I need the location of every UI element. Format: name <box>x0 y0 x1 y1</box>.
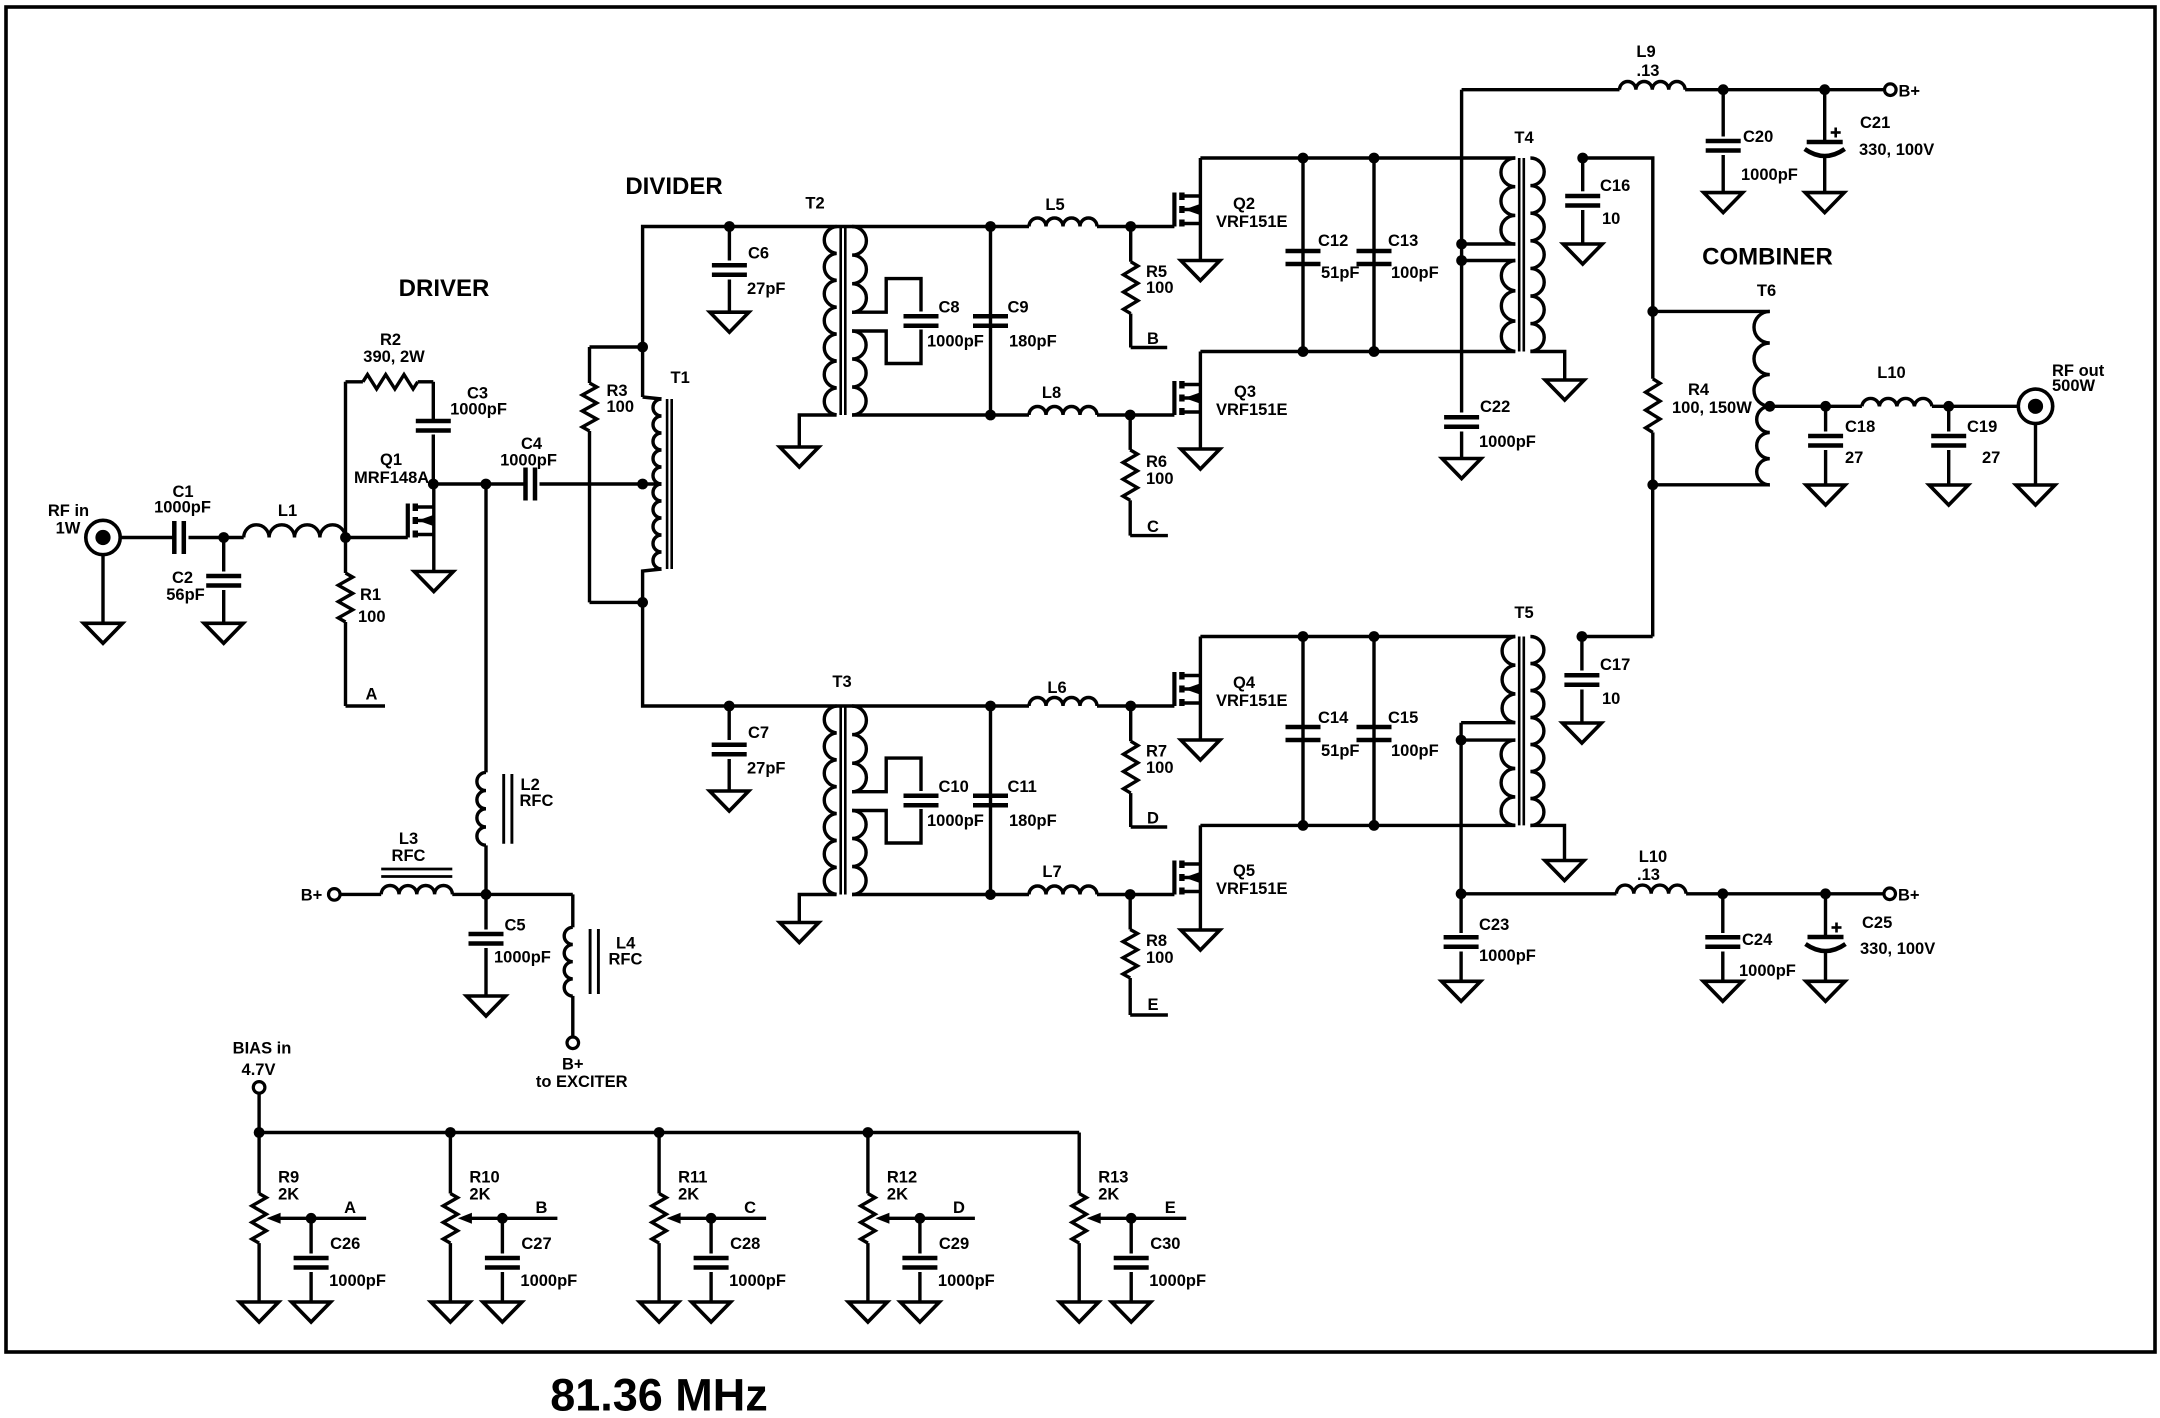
resistor R1 <box>338 538 385 707</box>
resistor R4 <box>1646 311 1753 484</box>
capacitor C4 <box>500 435 557 501</box>
ground <box>1181 261 1220 281</box>
svg-text:1000pF: 1000pF <box>329 1272 386 1290</box>
connector B+ (top) <box>1885 84 1897 96</box>
inductor L10 <box>1616 848 1686 894</box>
svg-text:VRF151E: VRF151E <box>1216 213 1288 231</box>
svg-text:Q5: Q5 <box>1233 862 1255 880</box>
capacitor C24 <box>1705 894 1796 982</box>
net label E <box>1131 1199 1186 1218</box>
svg-text:C18: C18 <box>1845 418 1875 436</box>
ground <box>1181 449 1220 469</box>
capacitor C2 <box>166 538 241 624</box>
node R8 junction <box>1125 889 1136 900</box>
svg-text:C16: C16 <box>1600 177 1630 195</box>
wire T1 bottom to lower rail <box>643 602 730 706</box>
ground <box>1545 861 1584 881</box>
wire L9 to B+ <box>1685 88 1884 91</box>
ground <box>900 1302 939 1322</box>
svg-text:100: 100 <box>1146 279 1174 297</box>
svg-text:DIVIDER: DIVIDER <box>625 173 722 200</box>
svg-text:T5: T5 <box>1514 604 1533 622</box>
capacitor C13 <box>1357 158 1439 352</box>
capacitor C30 <box>1114 1218 1206 1302</box>
svg-text:330, 100V: 330, 100V <box>1859 141 1934 159</box>
wire T3 bottom row <box>852 893 1029 896</box>
svg-text:1W: 1W <box>56 520 81 538</box>
svg-text:27pF: 27pF <box>747 760 786 778</box>
capacitor C20 <box>1706 90 1798 193</box>
svg-text:L6: L6 <box>1047 679 1066 697</box>
net label A <box>311 1199 366 1218</box>
transistor Q4 VRF151E <box>1174 637 1287 741</box>
connector RF in <box>86 520 120 554</box>
net label B <box>502 1199 557 1218</box>
svg-text:Q1: Q1 <box>380 451 402 469</box>
svg-text:27: 27 <box>1982 449 2000 467</box>
ground <box>1442 459 1481 479</box>
svg-text:1000pF: 1000pF <box>1741 166 1798 184</box>
net label D <box>1131 810 1168 828</box>
wire RF in connector to ground <box>101 554 104 623</box>
svg-text:RF in: RF in <box>48 502 89 520</box>
svg-text:B+: B+ <box>562 1056 584 1074</box>
wire L10 row left <box>1461 892 1616 895</box>
wire T3 lower tap to C10 <box>852 809 921 843</box>
svg-text:R10: R10 <box>469 1169 499 1187</box>
svg-text:R7: R7 <box>1146 743 1167 761</box>
ground <box>483 1302 522 1322</box>
node R10 wiper <box>497 1213 508 1224</box>
svg-text:1000pF: 1000pF <box>927 812 984 830</box>
ground <box>240 1302 279 1322</box>
svg-text:D: D <box>953 1199 965 1217</box>
svg-text:T1: T1 <box>671 369 690 387</box>
svg-text:C12: C12 <box>1318 232 1348 250</box>
capacitor C15 <box>1357 637 1439 826</box>
node C24 junction <box>1717 888 1728 899</box>
svg-text:COMBINER: COMBINER <box>1702 244 1833 271</box>
potentiometer R9 2K <box>252 1133 311 1303</box>
svg-text:C29: C29 <box>939 1235 969 1253</box>
svg-text:C10: C10 <box>939 778 969 796</box>
potentiometer R13 2K <box>1072 1133 1131 1303</box>
svg-text:C7: C7 <box>748 724 769 742</box>
wire Q5 drain rail <box>1200 824 1515 827</box>
svg-text:A: A <box>366 686 378 704</box>
wire T4 taps to L9 and C22 <box>1460 90 1463 413</box>
svg-text:100: 100 <box>1146 470 1174 488</box>
ground <box>414 572 453 592</box>
wire C4 to T1 center tap <box>540 482 643 485</box>
node R9 wiper <box>306 1213 317 1224</box>
inductor L4 RFC <box>564 927 642 996</box>
node bias bus junction <box>863 1127 874 1138</box>
resistor R6 <box>1123 415 1174 536</box>
svg-text:1000pF: 1000pF <box>1479 433 1536 451</box>
svg-text:B: B <box>535 1199 547 1217</box>
inductor L8 <box>1029 384 1097 415</box>
svg-text:RFC: RFC <box>609 951 643 969</box>
svg-text:C8: C8 <box>939 299 960 317</box>
node Q1 drain <box>428 479 439 490</box>
wire L2 to B+ node <box>484 845 487 894</box>
wire node to L4 <box>486 894 573 927</box>
wire output row <box>1770 405 2019 408</box>
svg-text:B+: B+ <box>301 887 323 905</box>
svg-text:C19: C19 <box>1967 418 1997 436</box>
svg-text:.13: .13 <box>1637 62 1660 80</box>
node C20 junction <box>1718 84 1729 95</box>
inductor L6 <box>1029 679 1097 706</box>
node C13 bottom <box>1369 346 1380 357</box>
node bias bus junction <box>254 1127 265 1138</box>
svg-text:1000pF: 1000pF <box>154 499 211 517</box>
svg-text:RFC: RFC <box>392 847 426 865</box>
ground <box>1703 981 1742 1001</box>
svg-text:R4: R4 <box>1688 381 1710 399</box>
svg-text:B+: B+ <box>1898 887 1920 905</box>
capacitor C21 electrolytic <box>1805 90 1935 193</box>
svg-text:100: 100 <box>1146 949 1174 967</box>
svg-text:81.36 MHz: 81.36 MHz <box>550 1370 768 1418</box>
svg-text:L8: L8 <box>1042 384 1061 402</box>
svg-text:C27: C27 <box>521 1235 551 1253</box>
net label B <box>1131 330 1168 348</box>
wire C3 to Q1 drain node <box>432 435 435 485</box>
svg-text:L10: L10 <box>1639 848 1667 866</box>
node C14 bottom <box>1298 820 1309 831</box>
svg-text:C26: C26 <box>330 1235 360 1253</box>
capacitor C23 <box>1444 894 1536 982</box>
svg-text:180pF: 180pF <box>1009 812 1057 830</box>
svg-text:MRF148A: MRF148A <box>354 469 429 487</box>
ground <box>1060 1302 1099 1322</box>
capacitor C16 <box>1565 158 1630 244</box>
node bias bus junction <box>654 1127 665 1138</box>
svg-text:180pF: 180pF <box>1009 333 1057 351</box>
connector BIAS in <box>253 1082 265 1094</box>
transistor Q3 VRF151E <box>1174 352 1287 450</box>
svg-text:VRF151E: VRF151E <box>1216 692 1288 710</box>
ground <box>1806 485 1845 505</box>
svg-text:2K: 2K <box>1098 1186 1119 1204</box>
wire T5 taps to L10 row <box>1459 723 1462 894</box>
potentiometer R11 2K <box>652 1133 711 1303</box>
wire R2 to C3 <box>432 382 435 421</box>
transistor Q1 MRF148A <box>354 451 434 572</box>
ground <box>848 1302 887 1322</box>
svg-text:C: C <box>1147 518 1159 536</box>
svg-text:L7: L7 <box>1042 863 1061 881</box>
node C11 top <box>985 701 996 712</box>
node L2 tap <box>481 479 492 490</box>
wire T2 bottom row <box>852 413 1029 416</box>
wire L3 to node <box>452 893 486 896</box>
node C7 junction <box>724 701 735 712</box>
wire L9 row left <box>1462 88 1620 91</box>
ground <box>2016 485 2055 505</box>
node C2 junction <box>218 532 229 543</box>
capacitor C5 <box>469 894 551 996</box>
label RF in 1W <box>48 502 89 538</box>
svg-text:R1: R1 <box>360 586 381 604</box>
wire B+ to L3 <box>340 893 381 896</box>
svg-text:C4: C4 <box>521 435 543 453</box>
label B+ <box>1898 887 1920 905</box>
transistor Q5 VRF151E <box>1174 825 1287 928</box>
svg-text:C11: C11 <box>1008 778 1037 796</box>
net label A <box>346 686 386 707</box>
svg-text:51pF: 51pF <box>1321 742 1360 760</box>
svg-text:2K: 2K <box>469 1186 490 1204</box>
ground <box>1806 981 1845 1001</box>
ground <box>1704 193 1743 213</box>
capacitor C27 <box>485 1218 577 1302</box>
wire T1 top to divider rail <box>643 227 730 348</box>
svg-text:2K: 2K <box>887 1186 908 1204</box>
wire divider rail to T2/L5 <box>729 225 1029 228</box>
svg-text:C2: C2 <box>172 569 193 587</box>
svg-text:A: A <box>344 1199 356 1217</box>
net label C <box>711 1199 766 1218</box>
svg-text:L3: L3 <box>399 830 418 848</box>
svg-text:56pF: 56pF <box>166 586 205 604</box>
node C15 bottom <box>1369 820 1380 831</box>
svg-text:27: 27 <box>1845 449 1863 467</box>
node R4 top <box>1647 306 1658 317</box>
wire L1 to Q1 gate <box>346 536 408 539</box>
svg-text:T4: T4 <box>1514 129 1534 147</box>
svg-text:R9: R9 <box>278 1169 299 1187</box>
net label C <box>1130 518 1168 536</box>
resistor R3 <box>582 347 642 602</box>
ground <box>780 447 819 467</box>
svg-text:C14: C14 <box>1318 709 1349 727</box>
node T1 center tap <box>637 479 648 490</box>
svg-text:330, 100V: 330, 100V <box>1860 940 1935 958</box>
capacitor C12 <box>1286 158 1360 352</box>
svg-text:T2: T2 <box>805 195 824 213</box>
node bias bus junction <box>445 1127 456 1138</box>
net label E <box>1130 996 1168 1015</box>
svg-text:2K: 2K <box>278 1186 299 1204</box>
capacitor C1 <box>154 483 211 554</box>
svg-text:2K: 2K <box>678 1186 699 1204</box>
svg-text:1000pF: 1000pF <box>1149 1272 1206 1290</box>
label B+ to EXCITER <box>536 1056 628 1092</box>
label B+ <box>1899 83 1921 101</box>
capacitor C22 <box>1444 398 1536 459</box>
capacitor C28 <box>694 1218 786 1302</box>
svg-text:C24: C24 <box>1742 931 1773 949</box>
svg-text:C15: C15 <box>1388 709 1418 727</box>
ground <box>1442 981 1481 1001</box>
svg-text:100: 100 <box>607 398 635 416</box>
ground <box>1181 740 1220 760</box>
label COMBINER <box>1702 244 1833 271</box>
ground <box>692 1302 731 1322</box>
ground <box>292 1302 331 1322</box>
connector B+ (bottom) <box>1884 888 1896 900</box>
svg-text:B+: B+ <box>1899 83 1921 101</box>
svg-text:R11: R11 <box>678 1169 707 1187</box>
transformer T6 <box>1653 282 1776 485</box>
connector RF out <box>2018 389 2052 423</box>
svg-text:Q2: Q2 <box>1233 195 1255 213</box>
node C25 junction <box>1820 888 1831 899</box>
node C6 junction <box>724 221 735 232</box>
svg-text:100pF: 100pF <box>1391 264 1439 282</box>
svg-text:10: 10 <box>1602 690 1620 708</box>
svg-text:VRF151E: VRF151E <box>1216 880 1288 898</box>
label DIVIDER <box>625 173 722 200</box>
svg-text:10: 10 <box>1602 210 1620 228</box>
svg-text:C25: C25 <box>1862 914 1892 932</box>
wire T2 lower tap to C8 <box>852 330 921 364</box>
svg-text:1000pF: 1000pF <box>1479 947 1536 965</box>
svg-text:1000pF: 1000pF <box>450 401 507 419</box>
wire L10 to B+ <box>1686 892 1884 895</box>
resistor R2 <box>346 331 434 389</box>
svg-text:L5: L5 <box>1045 196 1064 214</box>
node C12 top <box>1298 153 1309 164</box>
capacitor C11 <box>973 706 1057 895</box>
node C14 top <box>1298 631 1309 642</box>
svg-text:100pF: 100pF <box>1391 742 1439 760</box>
svg-text:51pF: 51pF <box>1321 264 1360 282</box>
svg-text:C22: C22 <box>1480 398 1510 416</box>
node C15 top <box>1369 631 1380 642</box>
wire T2 upper tap to C8 <box>852 279 921 313</box>
label RF out 500W <box>2052 362 2105 395</box>
capacitor C14 <box>1286 637 1360 826</box>
ground <box>1563 244 1602 264</box>
ground <box>431 1302 470 1322</box>
ground <box>1805 193 1844 213</box>
capacitor C17 <box>1564 637 1630 724</box>
node R7 junction <box>1125 701 1136 712</box>
svg-text:T6: T6 <box>1757 282 1776 300</box>
svg-text:C20: C20 <box>1743 128 1773 146</box>
node C9 top <box>985 221 996 232</box>
potentiometer R10 2K <box>443 1133 502 1303</box>
capacitor C18 <box>1808 406 1875 485</box>
svg-text:L10: L10 <box>1877 364 1905 382</box>
capacitor C26 <box>294 1218 386 1302</box>
connector B+ to EXCITER <box>567 1037 579 1049</box>
inductor L5 <box>1029 196 1097 227</box>
svg-text:R2: R2 <box>380 331 401 349</box>
ground <box>1181 930 1220 950</box>
transformer T2 <box>799 195 866 448</box>
ground <box>710 791 749 811</box>
svg-text:R12: R12 <box>887 1169 917 1187</box>
ground <box>467 996 506 1016</box>
capacitor C9 <box>973 227 1057 416</box>
transformer T4 <box>1462 129 1565 380</box>
ground <box>780 923 819 943</box>
svg-text:100: 100 <box>1146 759 1174 777</box>
svg-text:C28: C28 <box>730 1235 760 1253</box>
wire Q3 drain rail <box>1200 350 1515 353</box>
svg-text:100: 100 <box>358 608 386 626</box>
ground <box>1562 723 1601 743</box>
node R11 wiper <box>706 1213 717 1224</box>
capacitor C10 <box>904 778 984 830</box>
label B+ <box>301 887 323 905</box>
node C23 junction <box>1456 888 1467 899</box>
capacitor C19 <box>1931 406 2000 485</box>
svg-text:1000pF: 1000pF <box>494 949 551 967</box>
ground <box>204 623 243 643</box>
node R6 junction <box>1125 410 1136 421</box>
node T4 upper tap <box>1456 239 1467 250</box>
svg-text:1000pF: 1000pF <box>520 1272 577 1290</box>
capacitor C25 electrolytic <box>1806 894 1936 982</box>
inductor L3 RFC <box>381 830 452 894</box>
capacitor C7 <box>712 706 786 791</box>
potentiometer R12 2K <box>861 1133 920 1303</box>
node C19 junction <box>1943 401 1954 412</box>
svg-text:L1: L1 <box>278 502 297 520</box>
wire C1 to L1 <box>189 536 244 539</box>
svg-text:1000pF: 1000pF <box>500 452 557 470</box>
node C17 junction <box>1577 631 1588 642</box>
svg-text:L9: L9 <box>1636 43 1655 61</box>
svg-text:C9: C9 <box>1008 299 1029 317</box>
wire L5 to Q2 gate <box>1097 225 1174 228</box>
transformer T5 <box>1461 604 1564 861</box>
node C9 bottom <box>985 410 996 421</box>
wire T3 upper tap to C10 <box>852 758 921 792</box>
svg-text:27pF: 27pF <box>747 280 786 298</box>
inductor L7 <box>1029 863 1097 895</box>
svg-text:500W: 500W <box>2052 377 2096 395</box>
inductor L1 <box>244 502 346 538</box>
node T1 top <box>637 342 648 353</box>
svg-text:100, 150W: 100, 150W <box>1672 399 1752 417</box>
node T1 bottom <box>637 597 648 608</box>
svg-text:RFC: RFC <box>520 792 554 810</box>
svg-text:VRF151E: VRF151E <box>1216 401 1288 419</box>
svg-text:.13: .13 <box>1637 866 1660 884</box>
node C12 bottom <box>1298 346 1309 357</box>
capacitor C29 <box>902 1218 994 1302</box>
wire L6 to Q4 gate <box>1097 704 1174 707</box>
svg-text:C21: C21 <box>1860 114 1890 132</box>
node T6 tap <box>1764 401 1775 412</box>
node C13 top <box>1369 153 1380 164</box>
resistor R5 <box>1124 227 1174 348</box>
svg-text:C23: C23 <box>1479 916 1509 934</box>
node R5 junction <box>1125 221 1136 232</box>
wire L4 to B+ exciter terminal <box>571 996 574 1037</box>
svg-text:1000pF: 1000pF <box>927 333 984 351</box>
node R12 wiper <box>915 1213 926 1224</box>
svg-text:1000pF: 1000pF <box>938 1272 995 1290</box>
svg-text:C: C <box>744 1199 756 1217</box>
svg-text:E: E <box>1147 996 1158 1014</box>
wire BIAS in to bus <box>257 1093 260 1132</box>
resistor R8 <box>1123 895 1174 1016</box>
node C16 junction <box>1577 153 1588 164</box>
label DRIVER <box>399 275 490 302</box>
svg-text:T3: T3 <box>832 673 851 691</box>
wire combiner bottom to T5 <box>1651 485 1654 637</box>
svg-text:Q3: Q3 <box>1234 383 1256 401</box>
wire L7 to Q5 gate <box>1097 893 1174 896</box>
